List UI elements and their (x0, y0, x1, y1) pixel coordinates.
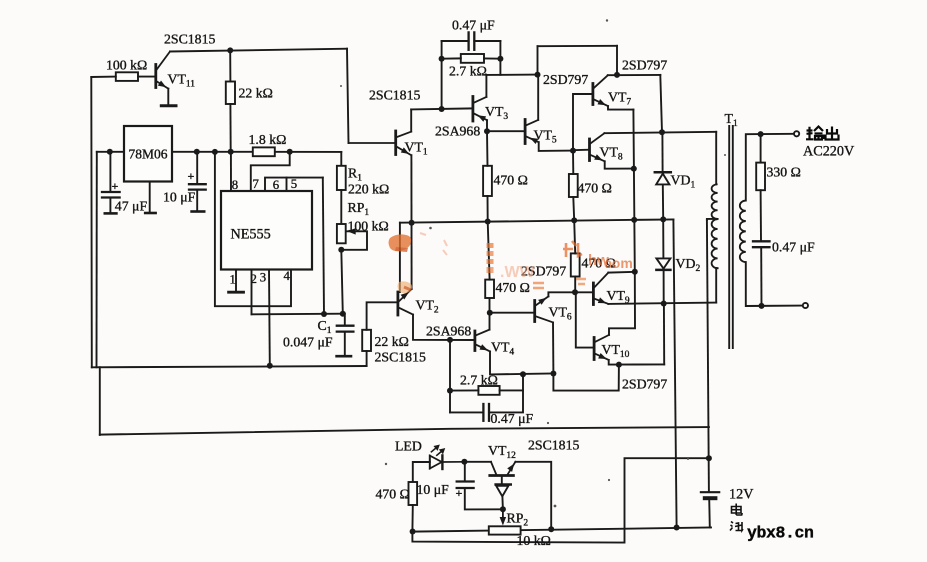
resistor 2.7 k-ohm (top) (461, 54, 484, 63)
wire VT3 collector riser (485, 75, 487, 97)
wire 330 top lead (760, 134, 762, 163)
ground stub 78M06 (149, 182, 151, 212)
node VT10 emitter tie (616, 362, 622, 368)
svg-text:220 kΩ: 220 kΩ (348, 182, 389, 197)
wire VT9 emitter to transformer primary bottom (608, 303, 716, 304)
svg-text:2SC1815: 2SC1815 (528, 438, 579, 453)
node bus 470-1 (485, 219, 491, 225)
wire VT5 base lead (487, 130, 525, 132)
svg-text:470 Ω: 470 Ω (578, 181, 612, 196)
svg-text:ybx8.cn: ybx8.cn (747, 524, 814, 543)
svg-text:C1: C1 (318, 318, 332, 336)
wire +12 rail left end down (96, 152, 98, 367)
wire VT6 emitter drop (552, 322, 554, 373)
wire 470-1 bottom lead (487, 196, 489, 222)
transistor VT1 (394, 131, 397, 155)
transistor VT10 (593, 338, 596, 360)
svg-text:2SA968: 2SA968 (435, 124, 480, 139)
wire VT5 collector riser (537, 75, 539, 120)
node 47uF junction (107, 149, 113, 155)
wire top rail corner down to VT1 base (347, 49, 349, 143)
wire 0.47uF right drop (499, 41, 501, 75)
node diode / cap return (500, 506, 506, 512)
svg-text:AC220V: AC220V (803, 144, 855, 160)
capacitor 0.47 uF (top) (442, 40, 469, 42)
svg-text:8: 8 (232, 178, 238, 192)
capacitor 10 uF (196, 152, 198, 183)
svg-text:com: com (604, 255, 633, 271)
wire VT11 emitter down (167, 89, 169, 105)
node 2.7k left (439, 56, 445, 62)
wire pin 1 lead (235, 270, 237, 292)
svg-text:NE555: NE555 (231, 227, 271, 243)
transistor VT12 (rotated) (490, 474, 514, 477)
potentiometer RP2 10 k-ohm body (489, 526, 521, 534)
terminal output bottom (803, 303, 808, 308)
svg-text:2SC1815: 2SC1815 (369, 88, 420, 103)
ground (NE555 pin 1) (229, 291, 244, 294)
wire VT1 collector to VT3 base (411, 108, 473, 109)
wire feedback left drop (449, 340, 451, 413)
wire VT3 emitter to node (486, 120, 488, 131)
wire pin 3 output lead (268, 270, 271, 366)
wire pins 6-5 riser to C1 node (323, 178, 324, 315)
node pin2/bracket riser (321, 311, 327, 317)
potentiometer RP1 100 k-ohm (337, 224, 346, 243)
svg-text:VT2: VT2 (416, 298, 439, 316)
label output (chinese) (806, 127, 839, 140)
wire long return line (100, 427, 709, 435)
wire bottom monitor rail (412, 528, 711, 532)
svg-text:0.047 μF: 0.047 μF (283, 335, 333, 350)
svg-text:47 μF: 47 μF (115, 199, 148, 214)
svg-text:0.47 μF: 0.47 μF (452, 18, 495, 33)
svg-text:0.47 μF: 0.47 μF (772, 240, 815, 255)
wire VT2 emitter to VT4 base (413, 315, 475, 340)
resistor 470 ohm (VT4 collector) (485, 280, 494, 298)
node 1.8k right junction (287, 149, 293, 155)
wire 470-1 top lead (486, 131, 489, 166)
svg-text:470 Ω: 470 Ω (496, 280, 530, 295)
svg-text:10 μF: 10 μF (163, 190, 196, 205)
node output bottom tie (759, 303, 765, 309)
node darlington collector tie (632, 269, 638, 275)
wire 470-3 top lead (488, 222, 490, 280)
resistor 470 ohm (VT5 emitter) (569, 174, 578, 197)
node Vcc-to-pin4 branch (212, 149, 218, 155)
svg-text:LED: LED (395, 439, 422, 454)
svg-text:T1: T1 (725, 111, 738, 129)
svg-text:4: 4 (284, 269, 291, 283)
wire rail corner down to R1 (340, 152, 342, 166)
wire 470-4 top lead (574, 220, 575, 253)
svg-text:2.7 kΩ: 2.7 kΩ (449, 64, 487, 79)
node VT5 base / 470 tie (484, 128, 490, 134)
node 330 ohm tap (top) (758, 131, 764, 137)
svg-text:3: 3 (260, 271, 266, 285)
wire 22k top lead (229, 50, 231, 81)
svg-text:VT3: VT3 (485, 104, 508, 122)
svg-text:78M06: 78M06 (129, 147, 168, 162)
wire 2.7k right lead (484, 57, 500, 59)
resistor 470 ohm (LED) (409, 482, 418, 505)
transformer core (728, 126, 730, 348)
svg-text:12V: 12V (729, 487, 754, 503)
wire rail drop to long return line (99, 367, 101, 435)
svg-text:+: + (112, 179, 119, 193)
wire pin 2 to C1 node (252, 313, 343, 316)
transformer T1 primary lower winding (712, 219, 718, 268)
wire VT9/VT10 base drop (576, 292, 594, 347)
wire 470-2 bottom lead (572, 197, 575, 220)
node VT6 base tie (487, 310, 493, 316)
wire VT8 base lead (573, 149, 590, 152)
wire RP1 down to C1 node (341, 250, 343, 314)
wire 22k-mid bottom lead (366, 351, 368, 366)
node bus 470-2 (571, 217, 577, 223)
svg-text:100 kΩ: 100 kΩ (348, 219, 389, 234)
label battery chinese (730, 504, 743, 531)
svg-text:2SC1815: 2SC1815 (375, 350, 426, 365)
svg-text:VD2: VD2 (676, 256, 701, 274)
svg-text:0.47 μF: 0.47 μF (491, 411, 534, 426)
svg-text:2SD797: 2SD797 (543, 72, 588, 87)
ground (VT11 emitter) (161, 104, 176, 107)
resistor R1 220 k-ohm (337, 166, 346, 190)
transistor VT11 (154, 65, 157, 88)
capacitor 0.47 uF (lower) (450, 411, 483, 413)
wire top rail corner down (537, 46, 539, 74)
wire LED resistor to rail (411, 505, 413, 532)
svg-text:5: 5 (291, 177, 297, 191)
svg-text:100 kΩ: 100 kΩ (106, 58, 147, 73)
wire 78M06 output rail (172, 151, 341, 153)
wire battery minus down (708, 498, 711, 527)
wire VT7 emitter jog (608, 106, 633, 110)
svg-text:2.7 kΩ: 2.7 kΩ (460, 373, 498, 388)
transistor VT2 (396, 292, 399, 315)
wire bus right corner down (to battery minus rail) (673, 219, 676, 527)
node bus crossing tie (631, 217, 637, 223)
transistor VT3 (471, 97, 474, 122)
wire ground rail (pin3 signal rail) (92, 366, 367, 367)
svg-text:1: 1 (230, 273, 236, 287)
svg-text:470 Ω: 470 Ω (376, 487, 410, 502)
wire top rail from VT11 collector (170, 49, 347, 52)
wire 470-2 top lead (572, 151, 574, 174)
wire 100k to VT11 base (138, 76, 156, 78)
resistor 22 k-ohm (VT2 base) (362, 330, 371, 351)
node feedback 2.7k right (520, 371, 526, 377)
node VT7 collector tie (614, 72, 620, 78)
resistor 2.7 k-ohm (lower) (478, 386, 499, 395)
node RP1 wiper tie (338, 247, 344, 253)
node VT12 emitter on rail (548, 526, 554, 532)
svg-text:VT6: VT6 (549, 305, 572, 323)
resistor 330 ohm (756, 163, 765, 191)
node VT9 emitter / VD2 (661, 301, 667, 307)
node VT5 collector tie (535, 72, 541, 78)
svg-text:22 kΩ: 22 kΩ (375, 334, 409, 349)
wire center tap (707, 218, 718, 221)
wire secondary top lead (746, 134, 761, 200)
zener (VT12 base diode) (501, 477, 503, 484)
wire primary bottom lead (715, 268, 717, 302)
wire VT9 collector line (608, 271, 635, 274)
svg-text:2SD797: 2SD797 (622, 58, 667, 73)
svg-text:VT12: VT12 (488, 443, 516, 461)
node pin2/RP1-C1 (340, 311, 346, 317)
node VT8 emitter tie (631, 166, 637, 172)
svg-text:+: + (188, 169, 195, 183)
wire battery jog to monitor rail (412, 458, 709, 542)
led LED indicator (429, 456, 431, 469)
transistor VT9 (592, 283, 595, 305)
svg-text:470 Ω: 470 Ω (494, 173, 528, 188)
transistor VT7 (592, 84, 595, 105)
wire 22k-mid top lead to VT2 base (367, 302, 398, 330)
svg-text:+: + (456, 486, 463, 500)
svg-text:2SC1815: 2SC1815 (164, 32, 215, 47)
svg-text:RP1: RP1 (348, 200, 370, 218)
wire VT1 emitter / VT2 collector (410, 155, 412, 289)
led arrows (431, 446, 444, 456)
svg-text:VT1: VT1 (405, 140, 428, 158)
svg-text:2SD797: 2SD797 (622, 377, 667, 392)
wire 78M06 input lead (97, 151, 124, 153)
transistor VT6 (533, 301, 536, 322)
wire 22k bottom lead (229, 104, 231, 152)
resistor 100 k-ohm (VT11 base) (116, 72, 138, 81)
svg-text:VT7: VT7 (608, 90, 631, 108)
node 10uF junction (194, 149, 200, 155)
terminal output top (794, 131, 799, 136)
capacitor C1 0.047 uF (344, 314, 346, 325)
svg-text:VD1: VD1 (671, 173, 696, 191)
wire VT6 collector jog (548, 292, 593, 296)
wire R1 to RP1 (340, 190, 342, 224)
svg-text:7: 7 (253, 177, 260, 191)
wire center tap down to battery plus (707, 220, 709, 492)
node VT9 base tie (572, 289, 578, 295)
transformer T1 secondary winding (740, 201, 746, 263)
transformer T1 primary upper winding (712, 184, 718, 219)
wire pin 8 lead (230, 152, 232, 191)
capacitor 10 uF (monitor) (464, 462, 466, 481)
node VT4 base / feedback loop (447, 337, 453, 343)
wire pin4 reset feed (left of NE555) (215, 152, 291, 306)
wire output top lead (761, 133, 794, 135)
node pin3 on rail (267, 363, 273, 369)
node 2.7k right (497, 56, 503, 62)
wire emitter-bus jog down (553, 365, 619, 391)
wire VT6 base lead (490, 312, 535, 314)
capacitor 47 uF (109, 152, 111, 191)
wire top rail right section (538, 45, 618, 47)
potentiometer RP2 wiper arrow (502, 509, 504, 519)
svg-text:10 μF: 10 μF (417, 482, 450, 497)
regulator U2 78M06 (124, 126, 172, 182)
wire VT10 emitter jog (609, 360, 665, 365)
node rail / bus-down tie (674, 525, 680, 531)
wire primary top lead (715, 132, 717, 185)
svg-text:330 Ω: 330 Ω (767, 165, 801, 180)
wire VD2 bottom to VT10 emitter line (663, 304, 665, 365)
svg-text:1.8 kΩ: 1.8 kΩ (249, 132, 287, 147)
wire 100k left lead (91, 76, 116, 78)
wire VT8 collector line to transformer (604, 132, 716, 133)
node 10uF top (461, 459, 467, 465)
battery 12V (701, 491, 719, 493)
wire pin 7 jog (251, 152, 290, 191)
wire 100k base feed left vertical (90, 77, 93, 367)
wire pin 2 lead (251, 270, 253, 315)
timer U1 NE555 box (221, 191, 312, 270)
wire VT5 emitter jog (539, 142, 573, 151)
wire mid bus (400, 219, 674, 222)
node 2.7k lower left (447, 388, 453, 394)
transistor VT5 (524, 120, 527, 144)
wire 2.7k left lead (442, 57, 461, 59)
scan watermark orange (389, 233, 633, 293)
svg-text:6: 6 (273, 178, 280, 192)
wire VT2 base riser to bus corner (399, 223, 401, 292)
resistor 1.8 k-ohm (253, 147, 275, 156)
wire VT4 emitter drop (490, 351, 553, 374)
pin bracket 6-5 (265, 178, 323, 191)
diode VD2 (662, 219, 664, 257)
transistor VT8 (588, 139, 591, 161)
wire rail down to 2SD797 node (616, 46, 618, 75)
wire 2.7k-low left lead (450, 389, 478, 391)
node top rail / 22k (227, 47, 233, 53)
svg-text:2SA968: 2SA968 (426, 324, 471, 339)
wire LED branch left corner (413, 462, 430, 482)
wire 2SD797 node line (608, 74, 661, 76)
svg-text:VT10: VT10 (602, 342, 630, 360)
resistor 22 k-ohm (top) (226, 82, 235, 105)
capacitor 0.47 uF (output) (753, 240, 770, 242)
scan specks (340, 19, 726, 507)
node rail left (410, 529, 416, 535)
wire VT12 top link (464, 461, 491, 463)
svg-text:VT11: VT11 (168, 72, 196, 90)
wire VT1 collector riser (410, 109, 412, 131)
wire VT4 collector chain (489, 298, 491, 330)
svg-text:VT4: VT4 (491, 340, 514, 358)
wire 2.7k-low right lead (500, 374, 523, 390)
svg-text:10 kΩ: 10 kΩ (517, 533, 551, 548)
wire primary lower to bottom lead (716, 267, 717, 269)
wire upper collector line y75 (486, 74, 537, 76)
node bus / VT1-VT2 (409, 220, 415, 226)
node bus VD tie (660, 216, 666, 222)
svg-text:VT5: VT5 (534, 128, 557, 146)
svg-text:22 kΩ: 22 kΩ (239, 86, 273, 101)
wire 0.47uF left drop (441, 41, 443, 109)
node 22k/pin8 junction (228, 149, 234, 155)
wire darlington drop (right) (633, 110, 634, 272)
node lower emitter bus end (550, 371, 556, 377)
wire corner down to VD1 (660, 75, 662, 132)
node battery feed (706, 455, 712, 461)
svg-text:.WW: .WW (500, 264, 536, 281)
resistor 470 ohm (VT3 emitter) (483, 166, 492, 196)
resistor 470 ohm (VT9 base) (571, 253, 580, 276)
wire VT12 emitter to drop (515, 462, 551, 529)
wire 330 to 0.47uF (760, 190, 762, 240)
transistor VT4 (473, 331, 476, 351)
node VT7/VT8 base tie (570, 148, 576, 154)
node 0.47uF loop left (439, 106, 445, 112)
node VD1 top tie (659, 129, 665, 135)
diode VD1 (661, 132, 663, 171)
wire VT8 emitter jog (605, 161, 634, 168)
wire 470-4 bottom lead (574, 277, 576, 293)
wire collector drop to VT10 (609, 272, 635, 335)
wire secondary bottom lead (746, 262, 802, 306)
wire VT7 base feed (573, 94, 593, 151)
